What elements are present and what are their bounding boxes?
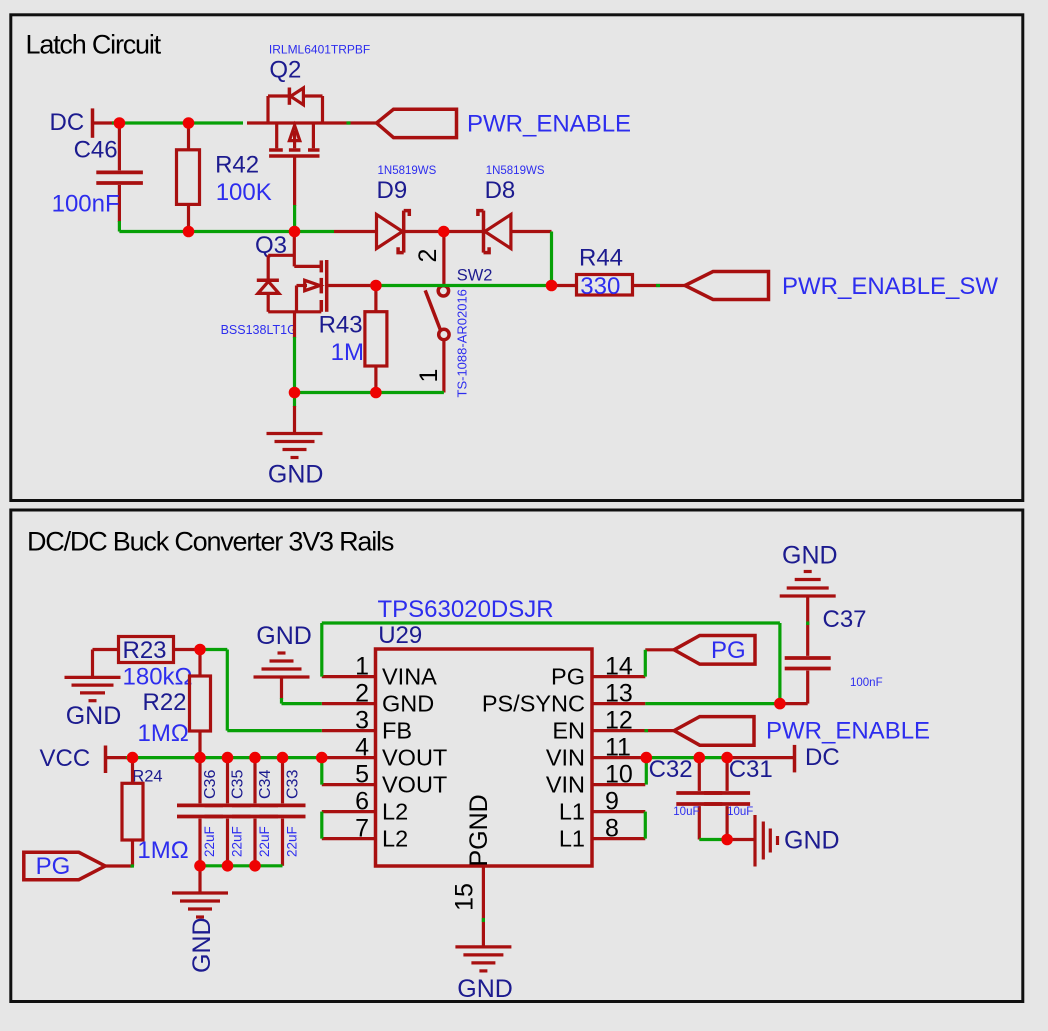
svg-text:GND: GND: [784, 827, 840, 855]
gate plate of Q2: [269, 154, 319, 158]
junction node VIN loop: [641, 752, 653, 764]
capacitor C37: [780, 596, 883, 704]
section box Latch Circuit: [11, 15, 1023, 501]
junction node C33: [277, 752, 289, 764]
svg-text:2: 2: [355, 680, 369, 708]
svg-text:7: 7: [355, 815, 369, 843]
svg-text:L2: L2: [382, 826, 408, 852]
svg-text:GND: GND: [188, 917, 216, 973]
svg-text:GND: GND: [382, 691, 434, 717]
svg-text:13: 13: [605, 680, 633, 708]
power symbol DC: [50, 108, 115, 137]
svg-text:6: 6: [355, 788, 369, 816]
svg-text:PG: PG: [551, 664, 585, 690]
svg-text:1MΩ: 1MΩ: [137, 837, 188, 864]
hierarchical port PWR_ENABLE (pin 12): [674, 717, 930, 746]
svg-text:R44: R44: [579, 245, 623, 272]
junction node C35 bottom: [222, 860, 234, 872]
wire L2 loop: [320, 812, 323, 839]
capacitor C35: [205, 758, 251, 866]
wire speck Q2 drain: [347, 121, 351, 124]
junction node R23/R22/FB: [194, 644, 206, 656]
svg-text:C36: C36: [202, 770, 219, 799]
wire speck pin12: [645, 729, 649, 732]
op-amp U29 TPS63020DSJR body: [376, 596, 593, 866]
svg-text:L2: L2: [382, 799, 408, 825]
capacitor C34: [232, 758, 278, 866]
svg-text:VCC: VCC: [40, 745, 91, 772]
source/drain connectors of Q2: [275, 123, 278, 148]
junction node R42 top: [183, 117, 195, 129]
svg-text:10uF: 10uF: [673, 806, 699, 818]
diode D9 (1N5819WS): [334, 165, 444, 253]
svg-text:330: 330: [580, 273, 620, 300]
pin 10 VIN: [546, 761, 645, 798]
wire C32/C31 bottom: [699, 838, 727, 841]
svg-text:IRLML6401TRPBF: IRLML6401TRPBF: [269, 42, 370, 56]
hierarchical port PG (left): [24, 852, 133, 880]
svg-text:GND: GND: [782, 542, 838, 570]
junction node C34: [249, 752, 261, 764]
svg-text:1N5819WS: 1N5819WS: [486, 165, 545, 177]
svg-text:BSS138LT1G: BSS138LT1G: [221, 323, 297, 337]
junction node R43 bottom: [370, 387, 382, 399]
junction node R24 top: [127, 752, 139, 764]
pin 2 GND: [322, 680, 434, 717]
resistor R22: [138, 650, 211, 758]
wire VCC rail: [126, 756, 322, 759]
svg-text:EN: EN: [552, 718, 585, 744]
wire speck R44 right: [656, 284, 660, 287]
junction node Q2 gate / Q3 drain: [289, 226, 301, 238]
wire speck PG port: [131, 864, 135, 867]
svg-text:100nF: 100nF: [52, 190, 120, 217]
junction node C32 top: [694, 752, 706, 764]
ground GND (R23): [65, 677, 122, 730]
junction node Q3 gate / R43: [370, 280, 382, 292]
svg-text:14: 14: [605, 653, 633, 681]
svg-text:PS/SYNC: PS/SYNC: [482, 691, 585, 717]
hierarchical port PWR_ENABLE (top): [377, 109, 632, 137]
junction node D9/D8/SW2: [438, 226, 450, 238]
svg-text:GND: GND: [268, 461, 324, 489]
power symbol DC (bottom): [727, 744, 840, 772]
channel bars of Q2: [269, 148, 283, 152]
svg-text:GND: GND: [256, 622, 312, 650]
pin 6 L2: [322, 788, 408, 825]
svg-text:C37: C37: [823, 606, 867, 633]
resistor R42: [177, 123, 272, 232]
svg-text:1: 1: [355, 653, 369, 681]
svg-text:VIN: VIN: [546, 772, 585, 798]
transistor Q2 (IRLML6401TRPBF P-MOSFET): [247, 42, 377, 206]
wire speck pin15: [482, 918, 485, 922]
wire VIN loop pin11-pin10: [645, 758, 648, 785]
pin 8 L1: [559, 815, 645, 852]
wire L1 loop: [644, 812, 647, 839]
svg-text:12: 12: [605, 707, 633, 735]
svg-text:PWR_ENABLE_SW: PWR_ENABLE_SW: [782, 273, 998, 300]
ground GND (rotated, C32/C31): [727, 815, 839, 867]
ground GND (PGND): [455, 947, 512, 1003]
svg-text:R22: R22: [143, 689, 187, 716]
junction node C35: [222, 752, 234, 764]
svg-text:DC: DC: [805, 744, 840, 771]
junction node DC/C46: [114, 117, 126, 129]
wire Q3 gate to SW2/R44: [370, 284, 552, 287]
pin 11 VIN: [546, 734, 646, 771]
wire GND bottom rail: [295, 391, 444, 394]
svg-text:4: 4: [355, 734, 369, 762]
ground GND (latch): [267, 406, 324, 489]
pin 13 PS/SYNC: [482, 680, 645, 717]
junction node PS/SYNC / C37: [774, 698, 786, 710]
wire FB net: [200, 650, 322, 731]
junction node C31 top: [721, 752, 733, 764]
wire C46 bottom: [118, 221, 121, 232]
wire speck C37: [806, 622, 809, 626]
svg-text:GND: GND: [457, 975, 513, 1003]
svg-text:D8: D8: [485, 177, 516, 204]
body arrow of Q3: [297, 284, 308, 287]
svg-text:C32: C32: [649, 756, 693, 783]
wire DC to Q2 source: [112, 121, 243, 124]
svg-text:PG: PG: [711, 637, 746, 664]
svg-text:PWR_ENABLE: PWR_ENABLE: [467, 111, 631, 138]
transistor Q3 (BSS138LT1G N-MOSFET): [221, 232, 372, 339]
capacitor C31: [704, 756, 773, 840]
source lead of Q3: [293, 312, 296, 338]
pin 15 PGND: [451, 794, 493, 946]
section box DC/DC Buck Converter: [11, 510, 1023, 1002]
resistor R24: [122, 758, 189, 866]
svg-text:100nF: 100nF: [850, 677, 883, 689]
junction node R42 bottom: [183, 226, 195, 238]
wire caps bottom rail: [200, 864, 283, 867]
junction node C31 bottom: [721, 834, 733, 846]
pin 9 L1: [559, 788, 645, 825]
wire PS/SYNC: [645, 702, 780, 705]
power symbol VCC: [40, 745, 129, 773]
svg-text:22uF: 22uF: [285, 826, 300, 857]
svg-text:100K: 100K: [216, 179, 272, 206]
pin 3 FB: [322, 707, 412, 744]
svg-text:TS-1088-AR02016: TS-1088-AR02016: [455, 289, 470, 397]
ground GND (caps, rotated text): [172, 866, 228, 973]
gate lead of Q2: [293, 158, 296, 207]
pin 4 VOUT: [322, 734, 447, 771]
svg-text:22uF: 22uF: [257, 826, 272, 857]
svg-text:2: 2: [414, 249, 442, 263]
junction node R22 bottom / C36: [194, 752, 206, 764]
svg-text:PG: PG: [36, 853, 71, 880]
svg-text:U29: U29: [378, 622, 422, 649]
svg-text:15: 15: [451, 883, 479, 911]
svg-text:C35: C35: [229, 770, 246, 799]
svg-text:PWR_ENABLE: PWR_ENABLE: [766, 718, 930, 745]
wire pin14 to PG port: [644, 650, 647, 677]
svg-text:R23: R23: [123, 637, 167, 664]
resistor R23: [93, 637, 201, 691]
svg-text:C31: C31: [729, 756, 773, 783]
svg-text:VOUT: VOUT: [382, 745, 447, 771]
wire GND stub: [293, 393, 296, 408]
junction node pin4: [316, 752, 328, 764]
capacitor C32: [649, 756, 723, 840]
wire Q2 gate to node: [293, 205, 296, 232]
svg-text:L1: L1: [559, 799, 585, 825]
junction node R44 left: [546, 280, 558, 292]
svg-text:DC: DC: [50, 109, 85, 136]
svg-text:C33: C33: [284, 770, 301, 799]
svg-text:3: 3: [355, 707, 369, 735]
svg-text:1: 1: [415, 369, 443, 383]
svg-text:PGND: PGND: [465, 794, 493, 866]
svg-text:C46: C46: [74, 137, 118, 164]
svg-text:GND: GND: [66, 702, 122, 730]
svg-text:TPS63020DSJR: TPS63020DSJR: [378, 596, 554, 623]
ground GND (inverted, C37): [780, 542, 838, 597]
svg-text:10: 10: [605, 761, 633, 789]
resistor R43: [319, 286, 387, 393]
svg-text:R43: R43: [319, 312, 363, 339]
wire gate node horizontal: [119, 230, 334, 233]
junction node C36 bottom: [194, 860, 206, 872]
wire GND to pin 2: [282, 698, 322, 704]
junction node Q3 source / GND: [289, 387, 301, 399]
capacitor C46: [52, 123, 143, 222]
svg-text:5: 5: [355, 761, 369, 789]
svg-text:1M: 1M: [331, 339, 364, 366]
wire D8 to R44 node: [550, 232, 553, 286]
resistor R44: [552, 245, 686, 301]
svg-text:DC/DC Buck Converter 3V3 Rails: DC/DC Buck Converter 3V3 Rails: [27, 527, 394, 557]
svg-text:8: 8: [605, 815, 619, 843]
svg-text:D9: D9: [377, 177, 408, 204]
svg-text:180kΩ: 180kΩ: [123, 664, 193, 691]
svg-text:VIN: VIN: [546, 745, 585, 771]
svg-text:9: 9: [605, 788, 619, 816]
wire VIN rail: [646, 756, 727, 759]
capacitor C33: [260, 758, 306, 866]
ground GND (inverted, near pin 2): [254, 622, 312, 699]
svg-text:SW2: SW2: [457, 267, 493, 285]
svg-text:FB: FB: [382, 718, 412, 744]
pin 5 VOUT: [322, 761, 447, 798]
gate plate of Q3: [325, 260, 329, 312]
hierarchical port PG (pin 14): [645, 636, 755, 665]
junction node C34 bottom: [249, 860, 261, 872]
hierarchical port PWR_ENABLE_SW: [685, 272, 998, 301]
gate lead of Q3: [328, 284, 372, 287]
svg-text:VOUT: VOUT: [382, 772, 447, 798]
body diode of Q2: [288, 88, 292, 105]
svg-text:Latch Circuit: Latch Circuit: [26, 30, 162, 60]
svg-text:1N5819WS: 1N5819WS: [378, 165, 437, 177]
switch SW2 (TS-1088-AR02016): [370, 232, 552, 398]
svg-text:R42: R42: [215, 151, 259, 178]
pin 1 VINA: [322, 653, 437, 690]
svg-text:VINA: VINA: [382, 664, 437, 690]
body diode of Q3: [267, 255, 270, 279]
svg-text:22uF: 22uF: [230, 826, 245, 857]
svg-text:Q2: Q2: [269, 57, 301, 84]
pin 12 EN: [552, 707, 674, 744]
svg-text:L1: L1: [559, 826, 585, 852]
wire VOUT loop pin4-pin5: [320, 758, 323, 785]
pin 14 PG: [551, 653, 645, 690]
channel bars of Q3: [320, 260, 324, 272]
svg-text:22uF: 22uF: [202, 826, 217, 857]
wire VINA to PS/SYNC top rail: [322, 623, 780, 704]
wire Q3 source down: [293, 337, 296, 393]
diode D8 (1N5819WS): [444, 165, 552, 253]
svg-text:11: 11: [605, 734, 631, 762]
svg-text:10uF: 10uF: [727, 806, 753, 818]
body arrow of Q2: [293, 131, 296, 148]
pin 7 L2: [322, 815, 408, 852]
svg-text:1MΩ: 1MΩ: [138, 720, 189, 747]
capacitor C36: [177, 758, 223, 866]
svg-text:C34: C34: [257, 770, 274, 799]
